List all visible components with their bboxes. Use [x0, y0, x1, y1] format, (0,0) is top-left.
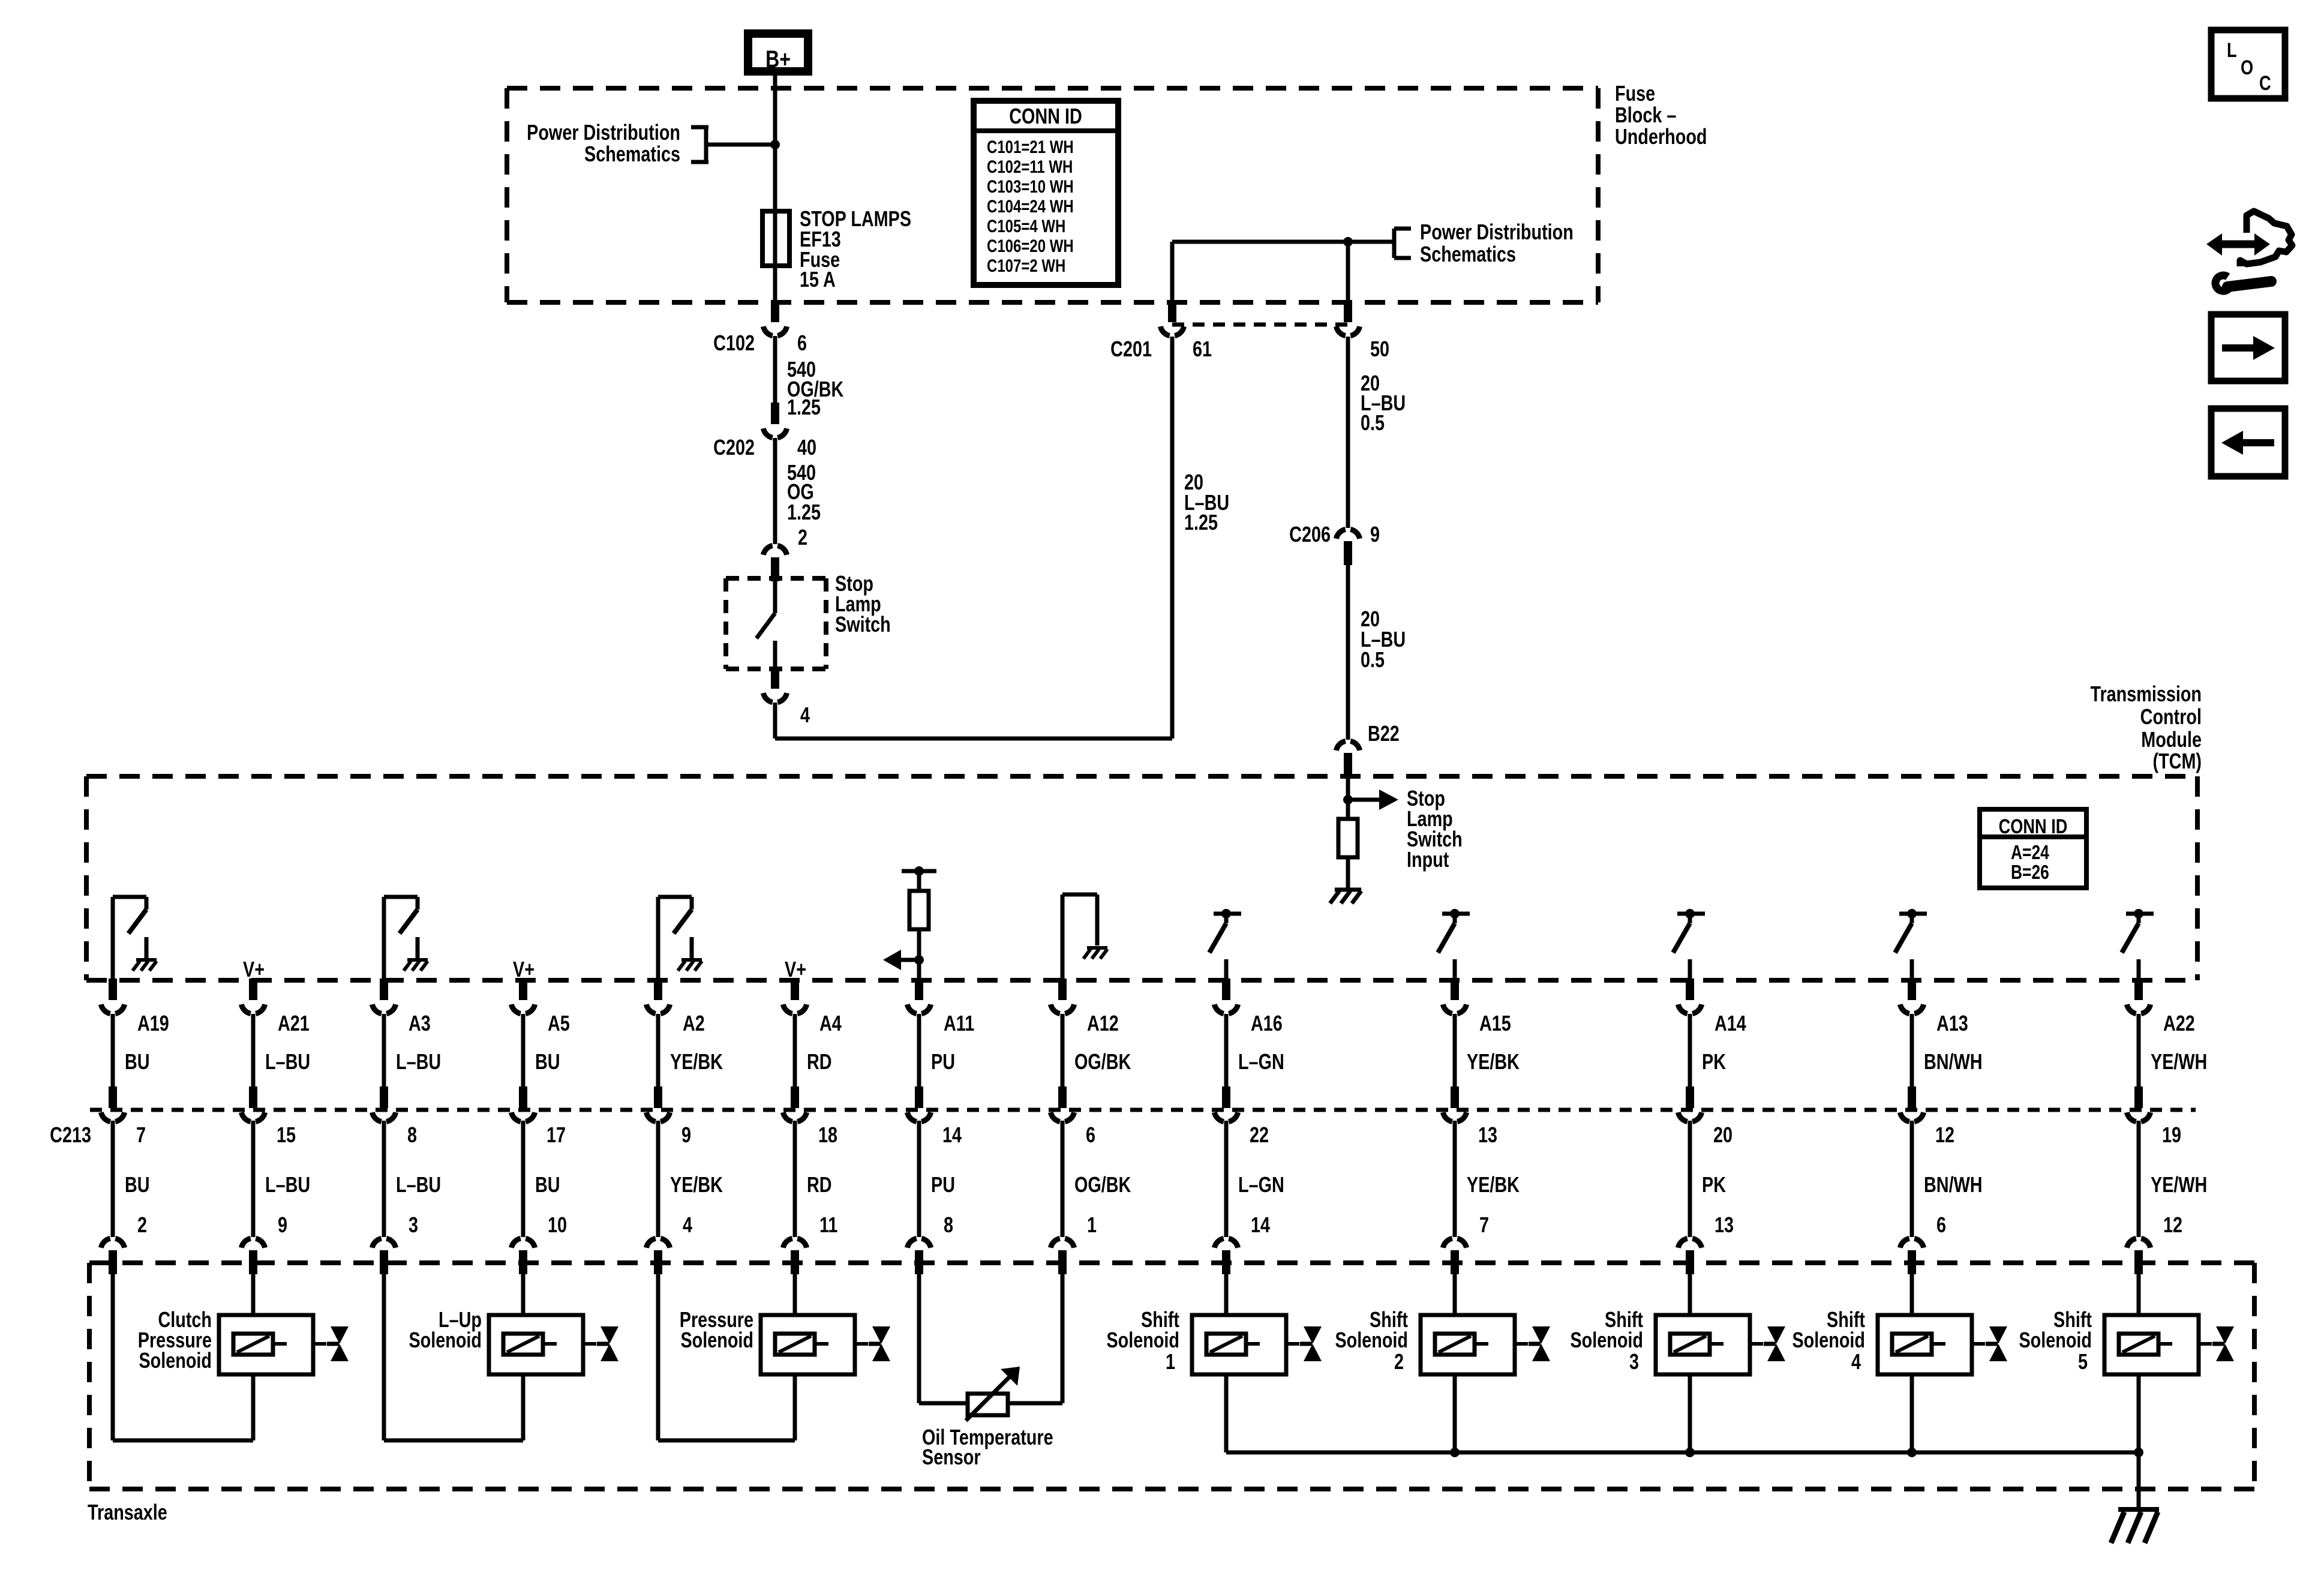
svg-text:A14: A14 — [1715, 1011, 1746, 1035]
svg-text:Solenoid: Solenoid — [1570, 1328, 1643, 1352]
svg-text:11: 11 — [819, 1212, 837, 1237]
svg-text:Fuse: Fuse — [1615, 81, 1655, 106]
svg-text:(TCM): (TCM) — [2152, 749, 2202, 773]
svg-text:22: 22 — [1250, 1122, 1269, 1147]
svg-text:RD: RD — [807, 1049, 832, 1074]
svg-text:C213: C213 — [50, 1122, 91, 1147]
svg-text:YE/BK: YE/BK — [670, 1049, 723, 1074]
svg-text:A16: A16 — [1251, 1011, 1283, 1035]
svg-text:C101=21 WH: C101=21 WH — [987, 136, 1074, 157]
svg-text:Power Distribution: Power Distribution — [527, 120, 680, 145]
svg-text:BU: BU — [125, 1172, 150, 1197]
svg-text:PK: PK — [1702, 1049, 1726, 1074]
svg-text:2: 2 — [1394, 1349, 1404, 1374]
svg-text:Control: Control — [2140, 704, 2202, 729]
svg-text:YE/BK: YE/BK — [670, 1172, 723, 1197]
svg-text:RD: RD — [807, 1172, 832, 1197]
svg-text:B22: B22 — [1368, 721, 1400, 746]
svg-text:BN/WH: BN/WH — [1924, 1172, 1983, 1197]
svg-text:BU: BU — [535, 1172, 560, 1197]
svg-text:L–BU: L–BU — [265, 1049, 310, 1074]
svg-text:L: L — [2227, 38, 2237, 62]
svg-text:20: 20 — [1713, 1122, 1733, 1147]
svg-text:18: 18 — [818, 1122, 837, 1147]
svg-text:A12: A12 — [1087, 1011, 1119, 1035]
svg-text:6: 6 — [1936, 1212, 1946, 1237]
svg-text:PU: PU — [931, 1049, 955, 1074]
svg-text:Solenoid: Solenoid — [680, 1328, 753, 1352]
svg-text:19: 19 — [2162, 1122, 2181, 1147]
svg-text:Transmission: Transmission — [2090, 682, 2202, 706]
svg-text:6: 6 — [1086, 1122, 1095, 1147]
svg-text:L–GN: L–GN — [1238, 1172, 1284, 1197]
svg-text:V+: V+ — [785, 957, 806, 981]
svg-text:C107=2 WH: C107=2 WH — [987, 255, 1065, 275]
svg-text:YE/WH: YE/WH — [2151, 1172, 2207, 1197]
svg-text:BN/WH: BN/WH — [1924, 1049, 1983, 1074]
svg-text:61: 61 — [1193, 337, 1212, 361]
svg-text:C102: C102 — [713, 331, 755, 355]
svg-text:13: 13 — [1715, 1212, 1734, 1237]
svg-text:1.25: 1.25 — [1184, 510, 1218, 535]
svg-text:6: 6 — [797, 331, 807, 355]
svg-text:9: 9 — [278, 1212, 287, 1237]
svg-text:1.25: 1.25 — [787, 395, 821, 419]
svg-text:A=24: A=24 — [2011, 842, 2049, 863]
svg-text:Power Distribution: Power Distribution — [1420, 220, 1574, 244]
svg-text:4: 4 — [683, 1212, 692, 1237]
svg-text:15: 15 — [277, 1122, 296, 1147]
svg-text:14: 14 — [1251, 1212, 1270, 1237]
svg-text:CONN ID: CONN ID — [1999, 815, 2068, 838]
svg-text:V+: V+ — [243, 957, 265, 981]
svg-text:12: 12 — [2163, 1212, 2182, 1237]
svg-text:7: 7 — [136, 1122, 146, 1147]
svg-text:4: 4 — [800, 703, 810, 727]
svg-text:9: 9 — [681, 1122, 691, 1147]
svg-text:C206: C206 — [1289, 522, 1331, 547]
svg-text:10: 10 — [548, 1212, 567, 1237]
svg-text:C106=20 WH: C106=20 WH — [987, 235, 1074, 256]
svg-text:Sensor: Sensor — [922, 1445, 981, 1469]
svg-text:C: C — [2259, 71, 2271, 95]
svg-text:0.5: 0.5 — [1361, 410, 1385, 435]
svg-text:C104=24 WH: C104=24 WH — [987, 196, 1074, 216]
svg-text:Solenoid: Solenoid — [1335, 1328, 1408, 1352]
svg-text:0.5: 0.5 — [1361, 647, 1385, 672]
svg-text:C103=10 WH: C103=10 WH — [987, 176, 1074, 196]
svg-text:Block –: Block – — [1615, 103, 1676, 127]
svg-text:A3: A3 — [409, 1011, 431, 1035]
svg-text:L–BU: L–BU — [396, 1049, 441, 1074]
svg-text:A22: A22 — [2163, 1011, 2195, 1035]
svg-text:5: 5 — [2078, 1349, 2088, 1374]
svg-text:C102=11 WH: C102=11 WH — [987, 156, 1073, 176]
svg-text:Solenoid: Solenoid — [1106, 1328, 1179, 1352]
svg-text:9: 9 — [1370, 522, 1380, 547]
svg-text:40: 40 — [797, 435, 816, 460]
svg-text:PK: PK — [1702, 1172, 1726, 1197]
svg-text:BU: BU — [125, 1049, 150, 1074]
svg-text:A19: A19 — [137, 1011, 169, 1035]
svg-text:13: 13 — [1478, 1122, 1497, 1147]
svg-text:50: 50 — [1370, 337, 1389, 361]
svg-text:Switch: Switch — [835, 612, 891, 637]
svg-text:YE/BK: YE/BK — [1467, 1049, 1520, 1074]
svg-text:Underhood: Underhood — [1615, 124, 1707, 149]
svg-text:CONN ID: CONN ID — [1009, 104, 1082, 128]
svg-text:L–BU: L–BU — [265, 1172, 310, 1197]
svg-text:L–BU: L–BU — [396, 1172, 441, 1197]
svg-text:1: 1 — [1087, 1212, 1097, 1237]
svg-text:Input: Input — [1407, 847, 1449, 872]
svg-text:15 A: 15 A — [800, 267, 836, 292]
svg-text:Schematics: Schematics — [1420, 242, 1516, 266]
svg-text:A15: A15 — [1479, 1011, 1511, 1035]
svg-text:17: 17 — [547, 1122, 566, 1147]
svg-text:C202: C202 — [713, 435, 755, 460]
svg-text:B+: B+ — [765, 46, 791, 73]
svg-text:BU: BU — [535, 1049, 560, 1074]
svg-text:A11: A11 — [944, 1011, 974, 1035]
svg-text:OG/BK: OG/BK — [1074, 1172, 1131, 1197]
svg-text:OG/BK: OG/BK — [1074, 1049, 1131, 1074]
svg-text:YE/WH: YE/WH — [2151, 1049, 2207, 1074]
svg-text:3: 3 — [409, 1212, 418, 1237]
svg-text:A4: A4 — [819, 1011, 842, 1035]
svg-text:YE/BK: YE/BK — [1467, 1172, 1520, 1197]
svg-text:L–GN: L–GN — [1238, 1049, 1284, 1074]
svg-text:C201: C201 — [1110, 337, 1152, 361]
svg-text:Solenoid: Solenoid — [409, 1328, 482, 1352]
svg-text:O: O — [2241, 56, 2253, 79]
svg-text:Module: Module — [2141, 727, 2202, 752]
svg-text:1.25: 1.25 — [787, 500, 821, 524]
svg-text:C105=4 WH: C105=4 WH — [987, 215, 1065, 236]
svg-text:2: 2 — [798, 525, 807, 550]
svg-text:Solenoid: Solenoid — [139, 1348, 212, 1373]
svg-text:Transaxle: Transaxle — [88, 1500, 167, 1524]
svg-text:3: 3 — [1629, 1349, 1639, 1374]
svg-text:A13: A13 — [1936, 1011, 1968, 1035]
svg-text:7: 7 — [1479, 1212, 1489, 1237]
svg-text:V+: V+ — [513, 957, 535, 981]
svg-text:1: 1 — [1166, 1349, 1175, 1374]
svg-text:B=26: B=26 — [2011, 861, 2049, 883]
svg-text:8: 8 — [407, 1122, 417, 1147]
svg-text:A5: A5 — [548, 1011, 570, 1035]
svg-text:Solenoid: Solenoid — [2019, 1328, 2092, 1352]
svg-text:Solenoid: Solenoid — [1792, 1328, 1865, 1352]
svg-text:12: 12 — [1935, 1122, 1954, 1147]
svg-text:2: 2 — [137, 1212, 147, 1237]
svg-text:14: 14 — [942, 1122, 962, 1147]
svg-text:A21: A21 — [278, 1011, 310, 1035]
svg-text:8: 8 — [944, 1212, 953, 1237]
svg-text:A2: A2 — [683, 1011, 705, 1035]
svg-text:PU: PU — [931, 1172, 955, 1197]
svg-text:4: 4 — [1851, 1349, 1861, 1374]
svg-text:Schematics: Schematics — [584, 142, 680, 166]
